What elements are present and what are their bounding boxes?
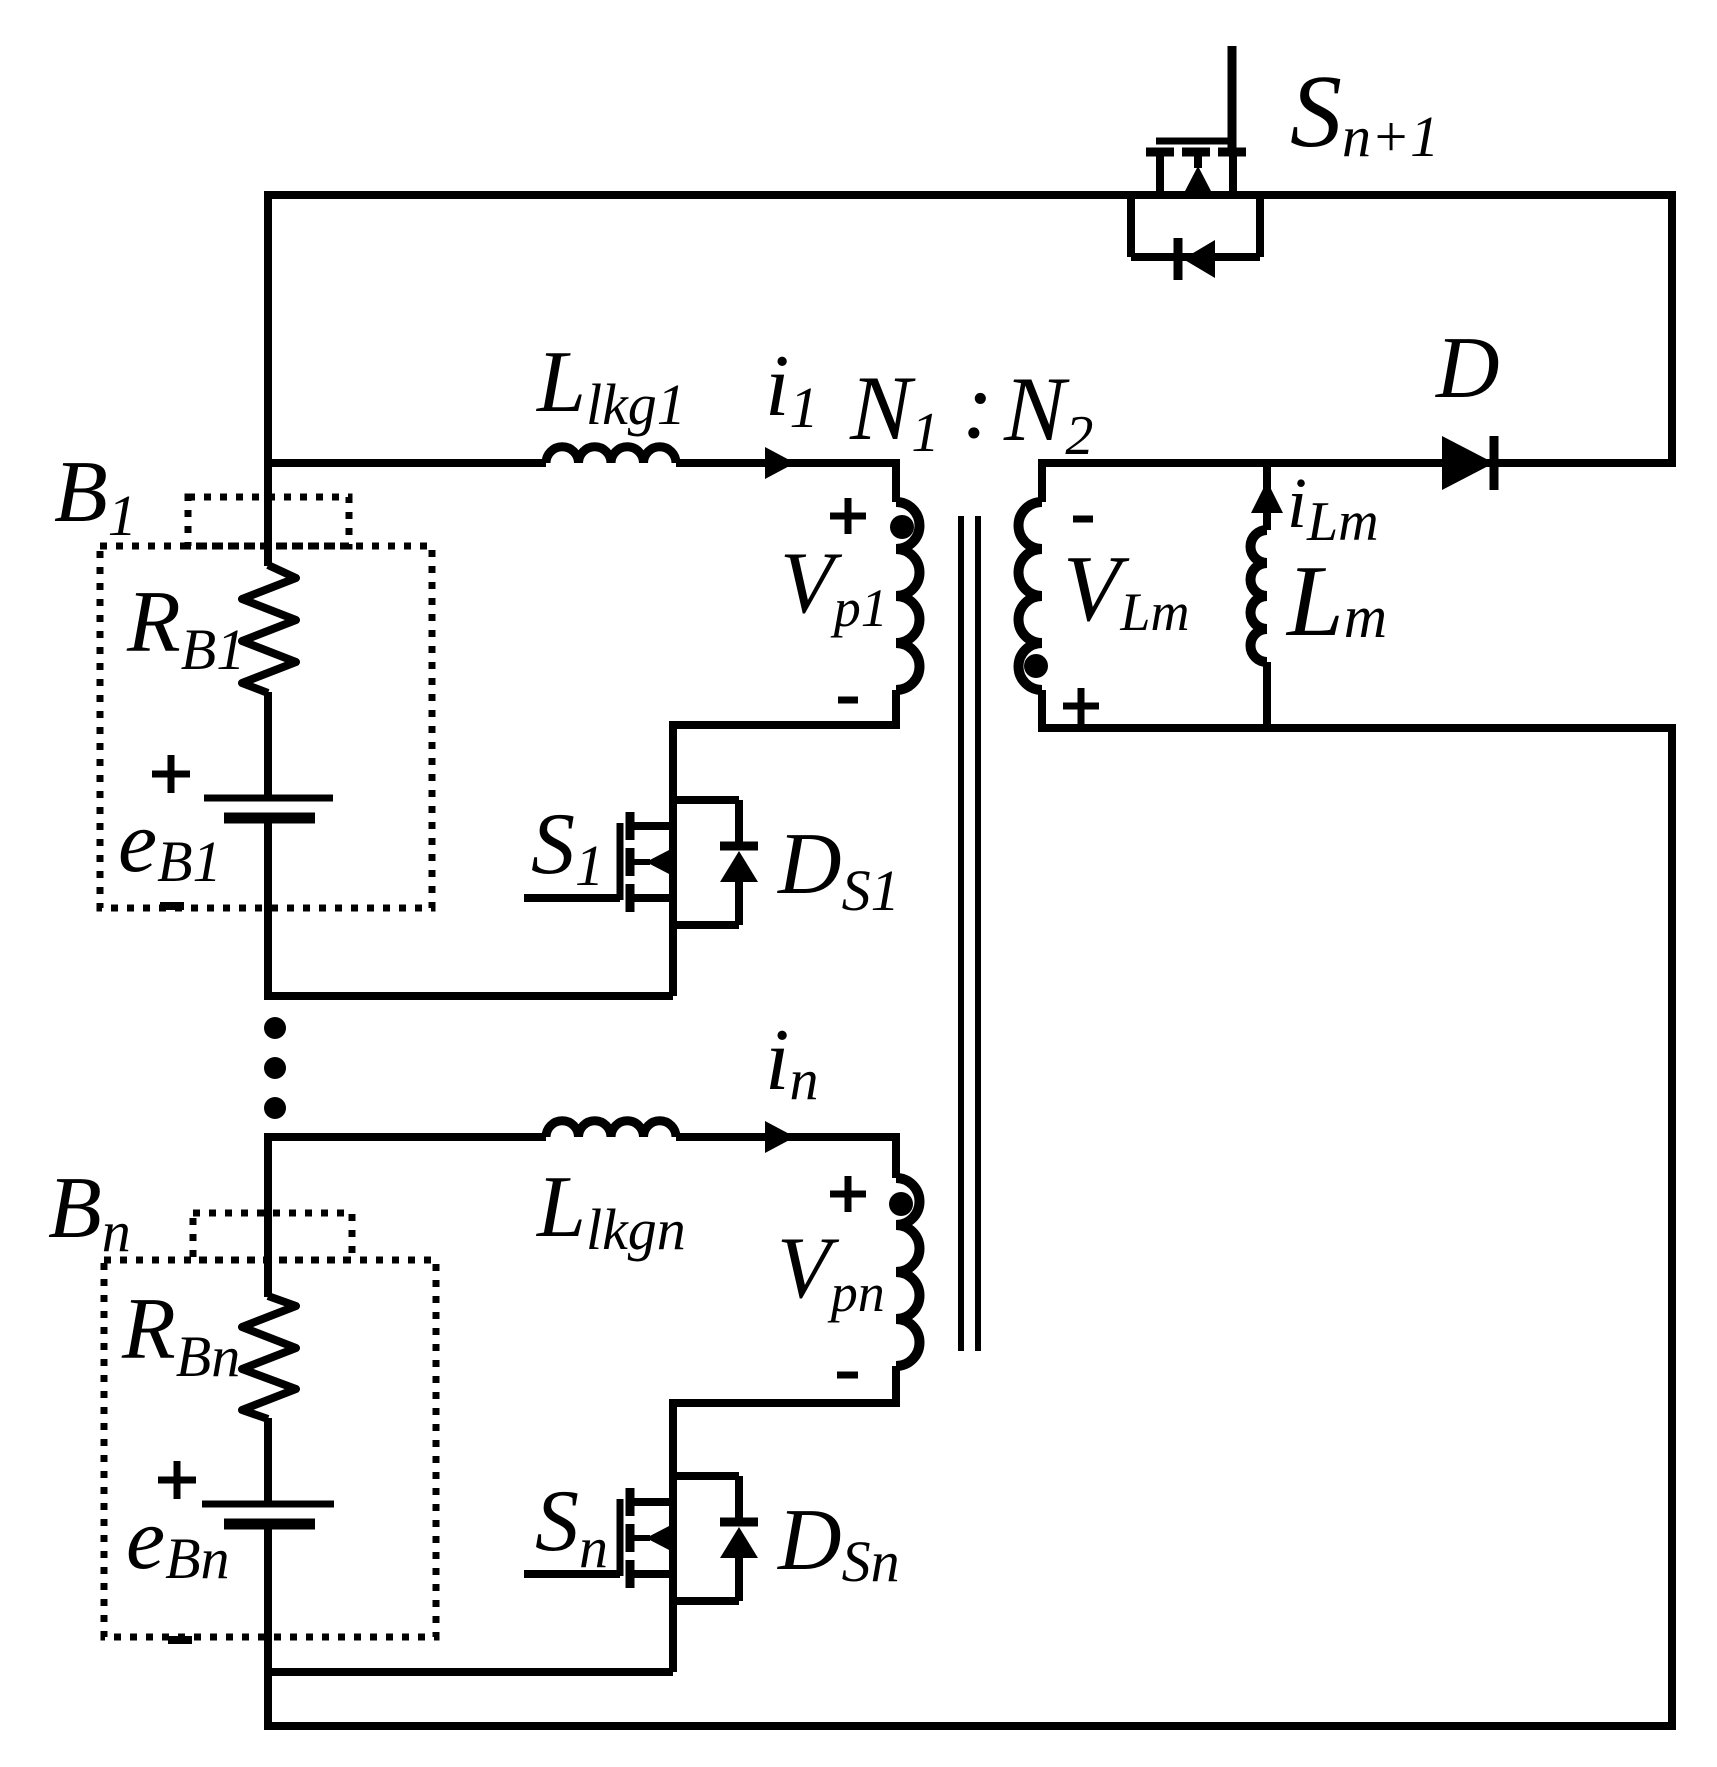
svg-text:Lm: Lm xyxy=(1285,545,1387,658)
svg-text:S1: S1 xyxy=(531,796,604,898)
svg-text:Bn: Bn xyxy=(48,1160,131,1264)
svg-text:RBn: RBn xyxy=(121,1281,240,1389)
svg-text::: : xyxy=(962,354,993,458)
svg-text:Sn+1: Sn+1 xyxy=(1290,54,1439,169)
svg-text:RB1: RB1 xyxy=(126,574,245,682)
svg-text:VLm: VLm xyxy=(1063,537,1189,642)
svg-text:i1: i1 xyxy=(765,338,818,440)
svg-text:iLm: iLm xyxy=(1287,463,1379,553)
svg-text:Vp1: Vp1 xyxy=(780,535,888,638)
svg-text:Llkg1: Llkg1 xyxy=(535,334,686,437)
svg-text:D: D xyxy=(1435,320,1500,417)
svg-text:Vpn: Vpn xyxy=(777,1220,885,1323)
svg-text:DS1: DS1 xyxy=(777,816,900,923)
svg-text:eB1: eB1 xyxy=(118,794,222,894)
svg-text:Sn: Sn xyxy=(535,1473,608,1580)
svg-text:Llkgn: Llkgn xyxy=(535,1159,686,1262)
svg-text:in: in xyxy=(765,1012,818,1112)
svg-text:N2: N2 xyxy=(1003,358,1093,467)
svg-text:DSn: DSn xyxy=(777,1492,900,1594)
svg-text:N1: N1 xyxy=(849,357,939,464)
svg-text:B1: B1 xyxy=(54,444,137,548)
